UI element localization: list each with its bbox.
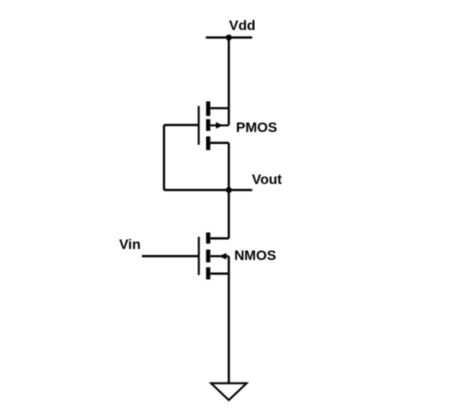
NMOS arrowhead (points left toward channel) xyxy=(219,253,226,260)
svg-text:PMOS: PMOS xyxy=(236,119,277,135)
svg-text:Vout: Vout xyxy=(252,171,282,187)
wire feedback gate-to-Vout vertical xyxy=(163,125,165,190)
PMOS bulk lead with arrow xyxy=(210,124,228,126)
NMOS channel bar (source) xyxy=(206,267,210,279)
PMOS gate line xyxy=(198,106,200,145)
wire Vdd rail to PMOS source/bulk xyxy=(228,38,230,126)
transistor PMOS xyxy=(199,101,229,150)
transistor NMOS xyxy=(199,233,227,280)
node Vout junction dot xyxy=(226,187,232,193)
wire NMOS bottom lead xyxy=(210,273,228,275)
wire PMOS gate lead xyxy=(164,124,199,126)
wire Vin lead to NMOS gate xyxy=(142,255,199,257)
wire NMOS top lead xyxy=(210,237,228,239)
wire PMOS drain down to Vout node xyxy=(228,143,230,190)
ground symbol xyxy=(211,383,246,400)
NMOS channel bar (bulk) xyxy=(206,250,210,263)
wire PMOS top lead xyxy=(210,107,228,109)
PMOS channel bar (bulk) xyxy=(206,119,210,131)
wire PMOS bottom lead xyxy=(210,142,228,144)
Vdd rail xyxy=(206,36,252,38)
PMOS arrowhead (points right) xyxy=(216,122,223,129)
PMOS channel bar (source) xyxy=(206,101,210,116)
svg-text:Vin: Vin xyxy=(119,236,141,252)
NMOS channel bar (drain) xyxy=(206,233,210,244)
NMOS gate line xyxy=(198,237,200,275)
svg-text:Vdd: Vdd xyxy=(229,17,255,33)
wire Vout node down to NMOS drain xyxy=(228,190,230,238)
wire Vout horizontal xyxy=(164,189,252,191)
wire NMOS middle (bulk) lead xyxy=(210,255,228,257)
svg-text:NMOS: NMOS xyxy=(234,247,276,263)
PMOS channel bar (drain) xyxy=(206,136,210,150)
node Vdd junction dot xyxy=(226,35,232,41)
wire NMOS source down to ground xyxy=(228,256,230,383)
